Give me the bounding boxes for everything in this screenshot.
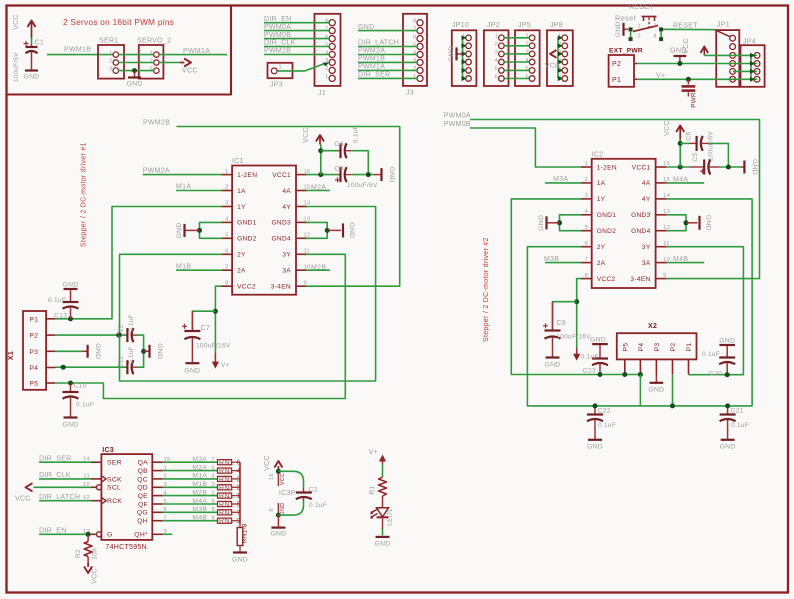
svg-text:GND: GND [270, 531, 286, 538]
svg-text:P3: P3 [30, 349, 39, 356]
svg-text:1: 1 [225, 169, 229, 175]
capacitor C20 [726, 345, 728, 358]
svg-text:X2: X2 [648, 323, 657, 330]
connector JP1 [716, 22, 739, 87]
svg-text:PWM0A: PWM0A [264, 24, 291, 31]
wire C12 to GND junction [137, 335, 144, 367]
svg-text:PWM0B: PWM0B [264, 32, 291, 39]
svg-text:QC: QC [137, 476, 148, 483]
wire C4 row left [321, 150, 338, 152]
svg-text:1: 1 [279, 65, 282, 71]
resistor R2 [87, 534, 89, 541]
svg-text:4A: 4A [282, 188, 291, 195]
wire tying switch pins 3-4 [660, 29, 662, 39]
svg-text:P1: P1 [30, 316, 39, 323]
wire SER1-1 to SERVO_2-1 [119, 54, 154, 56]
wire IC2 2Y to X2 row2 and 4Y [527, 199, 752, 406]
wire M3B from IC3 to RN1 [163, 511, 218, 513]
svg-text:VCC: VCC [15, 496, 31, 503]
svg-text:QH*: QH* [134, 532, 148, 539]
svg-text:7: 7 [225, 264, 229, 270]
svg-text:DIR_LATCH: DIR_LATCH [358, 40, 399, 47]
power symbol VCC arrow left [26, 483, 33, 491]
svg-text:1: 1 [585, 161, 589, 167]
svg-text:2A: 2A [237, 268, 246, 275]
shift register IC3 body [101, 454, 152, 540]
svg-text:3: 3 [109, 66, 112, 72]
wire M2B stub [306, 269, 330, 271]
svg-text:GND: GND [374, 541, 390, 548]
capacitor C1 [13, 40, 44, 83]
capacitor C5 polarized [690, 166, 704, 168]
resistor RN1-9 [216, 520, 219, 522]
svg-text:GND: GND [348, 222, 355, 238]
wire X1 P4 to C11 [55, 366, 125, 368]
svg-text:PWM2B: PWM2B [264, 48, 291, 55]
svg-text:M1B: M1B [176, 263, 191, 270]
svg-text:1-2EN: 1-2EN [597, 164, 617, 171]
wire IC3P VCC to C2 [278, 471, 303, 488]
wire PWM2A to IC1 pin1 [143, 174, 222, 176]
connector EXT_PWR [609, 55, 634, 87]
svg-text:GND: GND [23, 74, 39, 81]
capacitor C3 polarized [338, 174, 341, 176]
wire DIR_SER to J3 [358, 77, 417, 79]
svg-text:100uF/6V: 100uF/6V [708, 131, 715, 161]
svg-text:4: 4 [654, 33, 657, 39]
svg-text:4: 4 [495, 58, 498, 64]
junction DIR_EN at R2 [86, 532, 91, 537]
svg-text:C22: C22 [598, 408, 611, 415]
wire IC1 3Y to X1 P5 [55, 254, 345, 398]
svg-text:C20: C20 [709, 371, 722, 378]
svg-text:Stepper / 2 DC-motor driver #2: Stepper / 2 DC-motor driver #2 [483, 237, 490, 342]
svg-text:1-2EN: 1-2EN [237, 172, 257, 179]
svg-text:M1A: M1A [176, 184, 191, 191]
junction C4 branch on C3 wire [366, 172, 371, 177]
svg-text:M3A: M3A [553, 176, 568, 183]
wire JP2 to JP5 [504, 69, 529, 71]
svg-text:100uF/6V: 100uF/6V [13, 52, 20, 82]
arrow junction JP10 [462, 43, 467, 48]
svg-text:RN1-7: RN1-7 [219, 510, 241, 517]
svg-text:GND: GND [62, 422, 78, 429]
svg-text:GND2: GND2 [597, 228, 617, 235]
svg-text:M3B: M3B [544, 256, 559, 263]
capacitor C12 [125, 334, 127, 336]
svg-text:DIR_EN: DIR_EN [264, 16, 291, 23]
svg-text:GND: GND [184, 368, 200, 375]
arrow junction JP10 [462, 68, 467, 73]
svg-text:GND: GND [94, 343, 101, 359]
svg-text:GND: GND [615, 21, 622, 37]
power symbol VCC below R2 [87, 563, 89, 567]
svg-text:JP3: JP3 [270, 82, 283, 89]
svg-text:J3: J3 [406, 90, 414, 97]
wire DIR_EN to J1 [264, 22, 329, 24]
junction 2Y at X1 P2 row [117, 333, 122, 338]
connector JP4 [741, 39, 765, 87]
svg-text:6: 6 [495, 74, 498, 80]
svg-text:6: 6 [325, 34, 328, 40]
connector SER1 [98, 38, 124, 79]
svg-text:PWM1A: PWM1A [358, 64, 385, 71]
junction IC3P VCC [276, 469, 281, 474]
wire PWM2B to J1 [264, 54, 329, 56]
svg-text:8: 8 [413, 19, 416, 25]
svg-text:JP10: JP10 [452, 22, 469, 29]
ground below LED1 [376, 536, 390, 538]
wire X1 P3 to ground [55, 350, 82, 352]
svg-text:R1: R1 [369, 485, 376, 494]
svg-text:1: 1 [150, 50, 153, 56]
svg-text:RN1-1: RN1-1 [219, 493, 241, 500]
junction X1 P4 [61, 365, 66, 370]
wire stub at QH* [163, 533, 173, 535]
svg-text:QH: QH [137, 518, 148, 525]
junction switch right bottom [659, 37, 663, 41]
junction IC2 VCC1 [678, 165, 683, 170]
wire JP2 to JP5 [504, 45, 529, 47]
svg-text:GND: GND [126, 81, 142, 88]
pin 1 lead inside JP1 [717, 31, 730, 37]
svg-text:Stepper / 2 DC-motor driver #1: Stepper / 2 DC-motor driver #1 [81, 142, 88, 247]
svg-text:8: 8 [325, 19, 328, 25]
arrow junction JP10 [462, 76, 467, 81]
svg-text:0.1uF: 0.1uF [731, 422, 749, 429]
wire M3A from IC3 to RN1 [163, 461, 218, 463]
svg-text:C8: C8 [557, 320, 567, 327]
power symbol V+ below IC1 [212, 353, 230, 369]
svg-text:0.1uF: 0.1uF [353, 125, 360, 143]
resistor RN1-2 [216, 486, 219, 488]
svg-text:0.1uF: 0.1uF [76, 402, 94, 409]
svg-text:7: 7 [325, 26, 328, 32]
svg-text:2Y: 2Y [237, 252, 246, 259]
svg-text:74HCT595N: 74HCT595N [105, 544, 147, 551]
arrow junction JP8 [558, 76, 563, 81]
junction on servo ground wire [132, 68, 137, 73]
svg-text:GND: GND [705, 215, 712, 231]
svg-text:QA: QA [138, 460, 149, 467]
svg-text:VCC: VCC [264, 455, 271, 471]
wire IC1 1Y to X1 P1 [55, 207, 222, 319]
svg-text:IC2: IC2 [592, 152, 604, 159]
svg-text:GND1: GND1 [597, 212, 617, 219]
junction C23 on row1 [598, 372, 603, 377]
arrowhead into J1 pin 3 [323, 62, 330, 66]
svg-text:7: 7 [413, 26, 416, 32]
ground at IC1 left [176, 222, 200, 238]
wire VCC to JP1 pin3 and JP4 [704, 54, 757, 56]
connector JP8 [547, 22, 573, 86]
svg-text:GND: GND [751, 159, 758, 175]
wire JP2 to JP5 [504, 78, 529, 80]
svg-text:1Y: 1Y [237, 204, 246, 211]
svg-text:2: 2 [413, 66, 416, 72]
power symbol VCC for C1 [13, 14, 36, 37]
svg-text:1: 1 [413, 74, 416, 80]
svg-text:1: 1 [526, 34, 529, 40]
wire C5 to ground [719, 166, 740, 168]
wire GND to J3 [358, 30, 417, 32]
wire branch to C7 [192, 311, 215, 330]
svg-text:6: 6 [526, 74, 529, 80]
svg-text:3: 3 [585, 193, 589, 199]
capacitor C4 [338, 150, 341, 152]
junction at C6 row [678, 141, 683, 146]
wire JP2 to JP5 [504, 53, 529, 55]
svg-text:5: 5 [225, 233, 229, 239]
junction C21 on row2 [725, 403, 730, 408]
resistor RN1-1 [216, 495, 219, 497]
connector J1 [315, 14, 341, 97]
ground below C10 [64, 416, 78, 418]
svg-text:GND: GND [232, 557, 248, 564]
arrow junction JP10 [462, 35, 467, 40]
wire PWM0A to J1 [264, 30, 329, 32]
svg-text:5: 5 [526, 66, 529, 72]
wire IC1 GND4 to junction [306, 230, 327, 238]
svg-text:GND: GND [648, 387, 664, 394]
svg-text:3Y: 3Y [282, 252, 291, 259]
connector JP10 [452, 22, 477, 86]
svg-text:P1: P1 [612, 77, 621, 84]
svg-text:2: 2 [109, 58, 112, 64]
connector X1 [23, 311, 46, 390]
resistor RN1-6 [216, 461, 219, 463]
power symbol VCC at JP8 [550, 50, 557, 58]
resistor RN1-5 [216, 503, 219, 505]
svg-text:GND3: GND3 [631, 212, 651, 219]
junction at C4 row [318, 148, 323, 153]
svg-text:GND1: GND1 [237, 220, 257, 227]
wire IC1 GND3 to junction [306, 222, 327, 230]
svg-text:JP2: JP2 [487, 22, 500, 29]
svg-text:4Y: 4Y [642, 196, 651, 203]
ground right of C11 C12 [144, 343, 163, 359]
svg-text:4: 4 [585, 209, 589, 215]
svg-text:3Y: 3Y [642, 244, 651, 251]
wire PWM0B to J1 [264, 38, 329, 40]
svg-text:DIR_CLK: DIR_CLK [264, 40, 296, 47]
resistor RN1-3 [216, 478, 219, 480]
wire M1B from IC3 to RN1 [163, 486, 218, 488]
svg-text:2: 2 [150, 58, 153, 64]
svg-text:VCC: VCC [545, 63, 560, 70]
svg-text:P4: P4 [30, 365, 39, 372]
wire VCC1 junction up [320, 145, 322, 175]
wire IC1 GND2 to junction [200, 230, 223, 238]
svg-text:100uF/16V: 100uF/16V [556, 334, 591, 341]
arrow junction JP8 [558, 35, 563, 40]
wire IC1 GND1 to junction [200, 222, 223, 230]
wire M1A to IC1 pin2 [176, 190, 222, 192]
power symbol VCC right arrow [184, 59, 191, 67]
IC3 output pins QA-QH [137, 457, 171, 525]
ground above C13 [64, 288, 78, 290]
junction X2 P5 [622, 372, 627, 377]
arrow junction JP10 [462, 51, 467, 56]
junction C20 on P1 wire [725, 372, 730, 377]
svg-text:C21: C21 [731, 408, 744, 415]
junction X2 P4 [638, 372, 643, 377]
svg-text:1: 1 [638, 24, 641, 30]
junction VCC2 at C7 branch [213, 309, 218, 314]
wire M2A stub [306, 190, 330, 192]
wire SER1-3 to SERVO_2-3 [119, 70, 154, 72]
wire PWM0B to IC2 pin1 [470, 128, 582, 167]
wire DIR_LATCH to J3 [358, 46, 417, 48]
power symbol VCC above IC1 [303, 127, 324, 144]
wire C3 to ground [351, 174, 374, 176]
svg-text:4A: 4A [642, 180, 651, 187]
wire X2 P4 down to row2 [639, 375, 641, 406]
resistor RN1-4 [216, 470, 219, 472]
junction IC2 GND1-GND2 [557, 220, 562, 225]
svg-text:C5: C5 [692, 152, 699, 161]
svg-text:GND: GND [280, 503, 286, 516]
svg-text:VCC1: VCC1 [632, 164, 651, 171]
svg-text:PWM1A: PWM1A [183, 48, 210, 55]
svg-text:6: 6 [585, 241, 589, 247]
ground below RN1 [233, 551, 247, 553]
switch contact pin 4 [659, 37, 663, 41]
ground at reset switch [615, 21, 628, 37]
wire IC2 GND4 to junction [667, 223, 686, 231]
junction IC3P GND [276, 513, 281, 518]
svg-text:QD: QD [137, 485, 148, 492]
svg-text:DIR_SER: DIR_SER [358, 72, 390, 79]
arrow junction JP4 [750, 77, 755, 82]
svg-text:C2: C2 [309, 487, 318, 494]
ground below IC3P [271, 526, 285, 528]
capacitor C13 [70, 289, 72, 302]
svg-text:QG: QG [137, 510, 148, 517]
capacitor C8 polarized [552, 302, 554, 331]
svg-text:V+: V+ [369, 449, 378, 456]
svg-text:C10: C10 [74, 383, 87, 390]
svg-text:P3: P3 [654, 343, 661, 352]
servo section box [7, 7, 231, 95]
svg-text:0.1uF: 0.1uF [581, 354, 599, 361]
svg-text:RESET: RESET [629, 4, 654, 11]
svg-text:1A: 1A [237, 188, 246, 195]
junction VCC2 at C8 branch [574, 299, 579, 304]
svg-text:P2: P2 [30, 333, 39, 340]
svg-text:1: 1 [495, 34, 498, 40]
bus wire inside JP10 [462, 38, 464, 79]
connector JP3 [0, 63, 293, 89]
svg-text:VCC: VCC [280, 473, 286, 485]
wire SER1-2 to SERVO_2-2 [119, 62, 154, 64]
arrow junction JP10 [462, 59, 467, 64]
svg-text:9: 9 [663, 273, 667, 279]
ground at JP10 [448, 46, 463, 62]
wire X2 P2 down to row2 [672, 375, 674, 406]
wire PWM1B to J3 [358, 61, 417, 63]
svg-text:2: 2 [495, 42, 498, 48]
wire VCC1 junction up [679, 139, 681, 167]
svg-text:GND3: GND3 [271, 220, 291, 227]
svg-text:QB: QB [138, 468, 149, 475]
wire IC1 VCC2 down to C7 and V+ [215, 286, 222, 353]
svg-text:JP1: JP1 [717, 22, 730, 29]
bus wire inside JP4 [750, 55, 752, 79]
svg-text:R2: R2 [75, 549, 82, 558]
svg-text:C1: C1 [35, 40, 45, 47]
motor driver IC1 [221, 158, 311, 295]
svg-text:0.1uF: 0.1uF [598, 422, 616, 429]
ground right of IC2 [686, 222, 698, 224]
wire IC2 1Y to X2 row [511, 199, 640, 375]
wire IC2 VCC2 down [577, 279, 582, 348]
wire IC1 2Y to X1 P2 and 4Y [120, 207, 376, 382]
wire EXT_PWR P1 V+ to JP1 pin6 [637, 78, 757, 80]
switch contact pin 1 [629, 27, 633, 31]
svg-text:X1: X1 [8, 351, 15, 360]
svg-text:V+: V+ [656, 72, 665, 79]
wire IC2 VCC1 to C5 [667, 166, 690, 168]
wire DIR_EN to IC3 [39, 533, 91, 535]
svg-text:PWM2A: PWM2A [358, 48, 385, 55]
svg-text:RN1-5: RN1-5 [219, 502, 241, 509]
svg-text:GND: GND [590, 337, 606, 344]
svg-text:8: 8 [585, 273, 589, 279]
svg-text:0.1uF: 0.1uF [48, 297, 66, 304]
wire JP3 to J1 pin 3 [277, 63, 325, 71]
svg-text:PWM1B: PWM1B [64, 47, 91, 54]
svg-text:GND: GND [62, 282, 78, 289]
svg-text:C6: C6 [686, 131, 693, 140]
svg-text:SCL: SCL [107, 485, 121, 492]
wire SCL to VCC [34, 486, 92, 488]
svg-text:C7: C7 [201, 325, 211, 332]
wire JP2 to JP5 [504, 37, 529, 39]
svg-text:P1: P1 [686, 343, 693, 352]
svg-text:VCC2: VCC2 [597, 276, 616, 283]
svg-text:4: 4 [413, 50, 416, 56]
wire M4B stub [667, 262, 704, 264]
svg-text:5: 5 [413, 42, 416, 48]
svg-text:VCC1: VCC1 [272, 172, 291, 179]
ground below C22 [588, 439, 602, 441]
ground right of C3 [374, 167, 395, 183]
connector JP2 [484, 22, 509, 86]
wire C6 row left [680, 142, 689, 144]
wire RESET net to JP1 [663, 28, 716, 30]
svg-text:1A: 1A [597, 180, 606, 187]
capacitor C6 [689, 142, 697, 144]
svg-text:4: 4 [325, 50, 328, 56]
svg-text:GND: GND [176, 222, 183, 238]
svg-text:RN1-9: RN1-9 [219, 518, 241, 525]
wire M3B to IC2 pin7 [545, 262, 582, 264]
arrow junction JP4 [750, 53, 755, 58]
ground below C7 [185, 362, 199, 364]
arrow junction JP8 [558, 59, 563, 64]
svg-text:RN1-8: RN1-8 [242, 523, 249, 543]
svg-text:VCC2: VCC2 [237, 284, 256, 291]
svg-text:0.1uF: 0.1uF [309, 502, 327, 509]
svg-text:SER1: SER1 [99, 38, 119, 45]
wire DIR_SER to IC3 [39, 461, 91, 463]
svg-text:2: 2 [225, 185, 229, 191]
svg-text:RN1-2: RN1-2 [219, 485, 241, 492]
svg-text:3: 3 [526, 50, 529, 56]
svg-text:GND: GND [448, 46, 455, 62]
junction C6 branch [726, 165, 731, 170]
